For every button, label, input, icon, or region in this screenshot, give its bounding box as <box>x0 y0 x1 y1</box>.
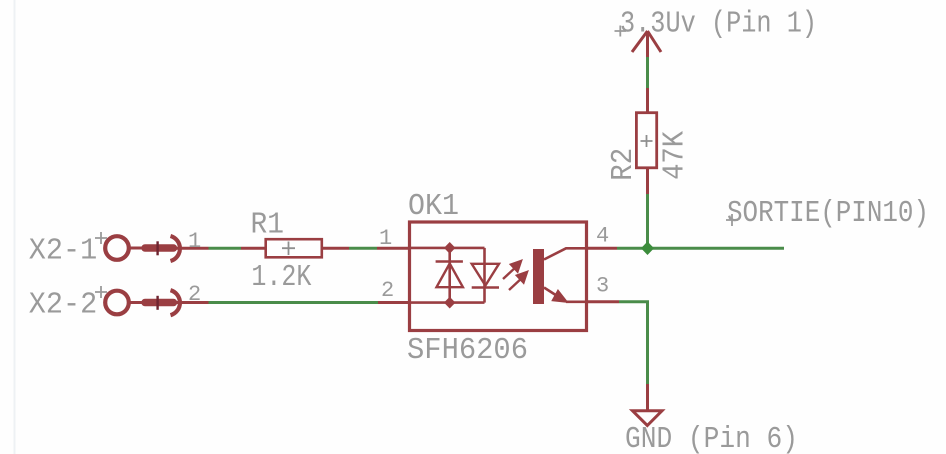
svg-text:2: 2 <box>381 278 394 303</box>
OK1 internal top rail <box>411 247 485 250</box>
OK1 internal left vertical <box>448 248 451 303</box>
diode D-right (pointing down) <box>472 264 499 288</box>
OK1 internal bottom rail <box>411 301 485 304</box>
svg-text:3: 3 <box>596 274 609 299</box>
origin cross R2 <box>641 135 653 147</box>
X2-2 pad bar <box>145 299 174 307</box>
svg-text:X2-1: X2-1 <box>29 234 97 269</box>
svg-text:47K: 47K <box>658 131 693 180</box>
origin cross X2-1 <box>95 232 107 244</box>
net wire down to junction (green) <box>646 194 649 249</box>
X2-2 circle <box>105 291 129 315</box>
X2-2 pad stub <box>129 301 142 304</box>
X2-1 pad stub <box>129 247 142 250</box>
svg-text:R2: R2 <box>606 148 641 181</box>
pin wire R2 top <box>646 88 649 113</box>
net 3.3V wire (green) <box>646 57 649 88</box>
net wire SORTIE (green) <box>617 247 784 250</box>
emitter arrow <box>553 291 568 303</box>
origin cross R1 <box>282 242 295 256</box>
OK1 internal right vertical <box>483 248 486 303</box>
pin wire GND <box>646 384 649 412</box>
svg-text:3.3Uv (Pin 1): 3.3Uv (Pin 1) <box>620 7 817 42</box>
X2-1 pad bar <box>145 244 174 252</box>
diode D-left (pointing up) <box>436 262 463 288</box>
origin cross X2-2 <box>95 286 107 298</box>
junction node (green diamond) <box>641 242 654 256</box>
wire segments row2: arc to OK1 <box>176 301 209 304</box>
junction diamond top <box>444 242 455 254</box>
connector X2-1 <box>29 229 201 269</box>
X2-2 pad cross <box>156 296 158 310</box>
transistor collector <box>544 248 586 259</box>
supply symbol 3.3V arrow <box>632 31 661 57</box>
svg-text:SFH6206: SFH6206 <box>407 333 528 368</box>
svg-text:GND (Pin 6): GND (Pin 6) <box>625 422 798 454</box>
resistor R1 <box>266 239 322 257</box>
transistor base bar <box>533 249 544 304</box>
light arrow 1 <box>503 261 521 279</box>
svg-text:OK1: OK1 <box>408 189 459 224</box>
ground symbol <box>633 411 663 426</box>
origin cross SORTIE <box>726 214 738 226</box>
svg-text:1.2K: 1.2K <box>251 260 311 295</box>
pin wire R2 bottom <box>646 168 649 194</box>
svg-text:SORTIE(PIN10): SORTIE(PIN10) <box>727 196 929 231</box>
junction diamond bottom <box>444 297 455 309</box>
pin wire OK1 pin3 <box>586 300 619 303</box>
svg-text:1: 1 <box>188 229 201 254</box>
optocoupler OK1 box <box>410 222 587 331</box>
svg-text:X2-2: X2-2 <box>29 288 97 323</box>
light arrow 2 <box>509 272 527 290</box>
faint page edge line <box>14 0 16 454</box>
emitter to pin3 <box>566 300 586 303</box>
connector X2-2 <box>29 282 201 323</box>
net wire pin3 to GND (green) <box>619 302 648 384</box>
wire segments row1: R1 to OK1 <box>322 247 349 250</box>
X2-1 arc <box>171 236 180 261</box>
X2-1 circle <box>105 236 129 260</box>
X2-1 pad cross <box>156 241 158 255</box>
transistor emitter <box>544 288 565 302</box>
X2-2 arc <box>171 290 180 315</box>
svg-text:4: 4 <box>596 224 609 249</box>
pin wire OK1 pin4 <box>586 247 617 250</box>
wire segments row1: arc to R1 <box>176 247 209 250</box>
svg-text:2: 2 <box>188 282 201 307</box>
svg-text:R1: R1 <box>251 208 285 243</box>
origin cross 3.3V <box>615 26 627 37</box>
resistor R2 <box>636 113 656 168</box>
